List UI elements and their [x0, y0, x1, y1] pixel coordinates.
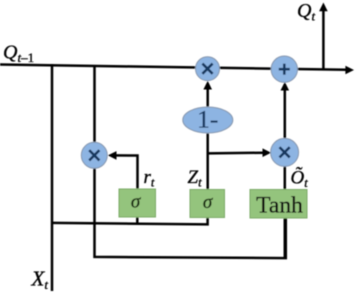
svg-text:Qt–1: Qt–1	[3, 42, 34, 66]
svg-text:rt: rt	[144, 167, 155, 190]
svg-text:Õt: Õt	[291, 168, 309, 191]
svg-text:Zt: Zt	[188, 167, 203, 190]
svg-text:σ: σ	[131, 192, 141, 213]
svg-text:Qt: Qt	[297, 0, 315, 24]
svg-text:1-: 1-	[197, 105, 218, 134]
svg-text:Xt: Xt	[31, 267, 49, 293]
svg-text:Tanh: Tanh	[256, 193, 303, 219]
svg-text:σ: σ	[203, 192, 213, 213]
